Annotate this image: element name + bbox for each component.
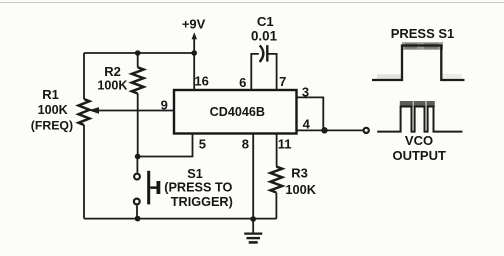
svg-text:C1: C1: [257, 14, 274, 29]
svg-text:100K: 100K: [38, 103, 68, 117]
resistor R2 100K: [97, 53, 143, 157]
waveform VCO OUTPUT trace: [377, 101, 462, 132]
svg-text:9: 9: [161, 98, 168, 113]
pin 6 wire: [251, 54, 258, 90]
node dot ground junction: [250, 216, 256, 222]
svg-text:16: 16: [194, 74, 208, 89]
svg-text:7: 7: [279, 74, 286, 89]
node dot pins 3/4 junction: [321, 127, 327, 133]
svg-text:100K: 100K: [285, 182, 316, 197]
power +9V arrow: [182, 17, 206, 53]
waveform label VCO OUTPUT: [392, 133, 446, 163]
svg-text:R1: R1: [42, 87, 59, 102]
svg-text:PRESS S1: PRESS S1: [391, 26, 455, 41]
pin 8 wire: [252, 134, 254, 220]
pin 7 wire: [267, 54, 277, 90]
wire top supply rail: [84, 52, 195, 54]
svg-text:6: 6: [239, 75, 246, 90]
svg-text:5: 5: [199, 136, 206, 151]
IC U1 CD4046B: [174, 90, 297, 134]
svg-text:(PRESS TO: (PRESS TO: [164, 181, 232, 195]
resistor R3 100K: [270, 166, 316, 219]
output terminal circle: [364, 128, 369, 133]
svg-text:0.01: 0.01: [251, 29, 278, 44]
node dot S1 bottom junction: [135, 216, 141, 222]
svg-text:OUTPUT: OUTPUT: [392, 148, 446, 163]
node dot top rail / +9V / pin16: [191, 50, 197, 56]
svg-text:3: 3: [302, 84, 309, 99]
pin 16 wire: [193, 53, 195, 90]
svg-text:TRIGGER): TRIGGER): [171, 195, 233, 209]
pin 4 wire to output: [297, 129, 363, 131]
svg-text:+9V: +9V: [182, 17, 206, 32]
wire pin 9 to R1 wiper: [98, 110, 174, 112]
capacitor C1 0.01: [251, 14, 278, 62]
svg-text:8: 8: [242, 136, 249, 151]
wire bottom rail: [84, 218, 277, 220]
waveform PRESS S1 pulse trace: [372, 42, 465, 80]
pin 5 wire branch: [138, 134, 193, 157]
svg-text:100K: 100K: [97, 78, 127, 92]
svg-text:CD4046B: CD4046B: [210, 105, 265, 119]
wire left vertical branch (R1 top and bottom): [83, 53, 85, 219]
svg-text:VCO: VCO: [405, 133, 433, 148]
svg-text:11: 11: [278, 136, 292, 151]
pin 11 wire: [276, 134, 278, 167]
potentiometer R1 100K (FREQ): [31, 87, 99, 133]
node dot pin5 / R2 / S1 junction: [135, 154, 141, 160]
switch S1 (PRESS TO TRIGGER): [134, 157, 233, 219]
svg-text:R2: R2: [104, 64, 121, 79]
svg-text:R3: R3: [291, 166, 308, 181]
svg-text:S1: S1: [187, 167, 203, 181]
svg-text:4: 4: [303, 117, 311, 132]
ground: [244, 219, 262, 242]
pin 3 wire branch: [297, 97, 324, 130]
svg-text:(FREQ): (FREQ): [31, 119, 73, 133]
node dot top rail / R2: [135, 50, 141, 56]
